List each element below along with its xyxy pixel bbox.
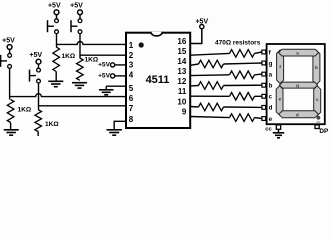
svg-text:+5V: +5V: [29, 52, 42, 59]
pushbutton switch B (normally open): [78, 19, 82, 23]
svg-text:1: 1: [129, 41, 134, 50]
svg-text:g: g: [269, 60, 273, 67]
ground below R1: [48, 80, 63, 82]
resistor R4 1Kohm pull-down of input A (node D column): [35, 110, 42, 132]
segment b (top right): [313, 50, 320, 84]
svg-text:3: 3: [129, 61, 134, 70]
svg-text:470Ω resistors: 470Ω resistors: [215, 40, 261, 47]
470-ohm resistor row to display segment b (IC pin 12): [190, 85, 198, 87]
svg-text:+5V: +5V: [70, 3, 83, 10]
resistor R1 1Kohm pull-down of input B (node A column): [53, 47, 60, 72]
ground below cc: [273, 132, 284, 134]
svg-text:1KΩ: 1KΩ: [45, 121, 59, 128]
display pin pad e: [262, 117, 266, 121]
display pin pad d: [262, 106, 266, 110]
segment f (top left): [277, 50, 284, 84]
svg-text:e: e: [279, 97, 282, 102]
pin 1 indicator dot of U1: [139, 42, 144, 47]
svg-text:a: a: [296, 51, 299, 56]
segment c (bottom right): [314, 86, 321, 116]
cc pin pad below display: [276, 125, 280, 129]
svg-text:7: 7: [129, 104, 134, 113]
svg-text:5: 5: [129, 84, 134, 93]
wire: pushbutton B down to node B: [79, 34, 81, 58]
wire from +5V terminal to switch D: [38, 64, 40, 68]
display pin pad g: [262, 61, 266, 65]
svg-text:d: d: [296, 112, 299, 117]
wire cc pad to ground: [278, 129, 280, 133]
svg-text:DP: DP: [319, 128, 329, 135]
svg-text:6: 6: [129, 94, 134, 103]
svg-text:13: 13: [177, 67, 186, 76]
wire from +5V terminal to switch A: [56, 15, 58, 19]
pushbutton switch C (normally open): [8, 54, 12, 58]
svg-text:+5V: +5V: [98, 73, 111, 80]
ground on IC pin 8 (VSS): [114, 121, 126, 130]
470-ohm resistor row to display segment d (IC pin 10): [190, 106, 198, 109]
segment a (top): [279, 49, 319, 56]
svg-text:14: 14: [177, 57, 186, 66]
display pin pad a: [262, 72, 266, 76]
pushbutton switch D (normally open): [37, 68, 41, 72]
wire: node B to IC pin 2: [80, 54, 126, 56]
svg-text:b: b: [315, 65, 318, 70]
svg-text:b: b: [269, 83, 273, 90]
svg-text:12: 12: [177, 77, 186, 86]
wire: pushbutton A down to node A: [56, 34, 58, 47]
resistor R3 1Kohm pull-down of input D (node C column): [7, 100, 14, 123]
svg-text:dp: dp: [316, 120, 320, 124]
ground below R3: [4, 129, 19, 131]
svg-text:9: 9: [182, 107, 187, 116]
svg-text:4511: 4511: [146, 74, 170, 86]
svg-text:1KΩ: 1KΩ: [18, 107, 32, 114]
pushbutton switch A (normally open): [55, 19, 59, 23]
svg-text:1KΩ: 1KΩ: [62, 53, 76, 60]
svg-text:g: g: [296, 83, 299, 88]
wire from +5V terminal to switch B: [79, 15, 81, 19]
display pin pad b: [262, 83, 266, 87]
segment e (bottom left): [276, 86, 283, 115]
svg-text:+5V: +5V: [2, 37, 15, 44]
svg-text:1KΩ: 1KΩ: [85, 57, 99, 64]
wire: node A to IC pin 1 (hop over pushbutton B wire): [57, 42, 127, 45]
svg-text:11: 11: [178, 87, 187, 96]
ground on IC pin 5 (latch enable): [106, 85, 126, 87]
svg-text:+5V: +5V: [48, 3, 61, 10]
7-segment display module outline: [267, 44, 325, 124]
svg-text:10: 10: [177, 97, 186, 106]
svg-text:15: 15: [177, 47, 186, 56]
wire: pushbutton C down to node C: [9, 68, 11, 99]
wire: pushbutton D down to node D: [38, 83, 40, 110]
resistor R2 1Kohm pull-down of input C (node B column): [77, 58, 84, 80]
svg-text:+5V: +5V: [98, 62, 111, 69]
DP pin pad below display: [315, 125, 319, 129]
svg-text:e: e: [269, 116, 273, 123]
svg-text:c: c: [316, 97, 319, 102]
segment d (bottom): [279, 111, 319, 118]
display pin pad f: [262, 50, 266, 54]
svg-text:c: c: [269, 94, 273, 101]
svg-text:2: 2: [129, 51, 134, 60]
470-ohm resistor row to display segment e (IC pin 9): [190, 117, 229, 118]
wire: node C to IC pin 6 (hop over pushbutton D wire): [10, 94, 126, 97]
svg-text:cc: cc: [265, 126, 272, 132]
470-ohm resistor row to display segment g (IC pin 14): [190, 64, 198, 65]
svg-text:d: d: [269, 105, 273, 112]
notch at top of U1: [151, 32, 163, 36]
svg-text:a: a: [269, 71, 273, 78]
op IC U1: 4511 BCD to 7-segment latch decoder driver: [126, 33, 190, 128]
svg-text:16: 16: [177, 37, 186, 46]
470-ohm resistor row to display segment c (IC pin 11): [190, 95, 229, 97]
wire from +5V terminal to switch C: [9, 49, 11, 53]
ground below R2: [72, 82, 87, 84]
svg-text:4: 4: [129, 70, 134, 79]
470-ohm resistor row to display segment a (IC pin 13): [190, 74, 229, 77]
svg-text:8: 8: [129, 115, 134, 124]
470-ohm resistor row to display segment f (IC pin 15): [190, 53, 229, 55]
display pin pad c: [262, 94, 266, 98]
decimal point dot inside display: [317, 116, 321, 120]
segment g (middle): [279, 82, 317, 88]
wire: node D to IC pin 7: [39, 105, 127, 107]
